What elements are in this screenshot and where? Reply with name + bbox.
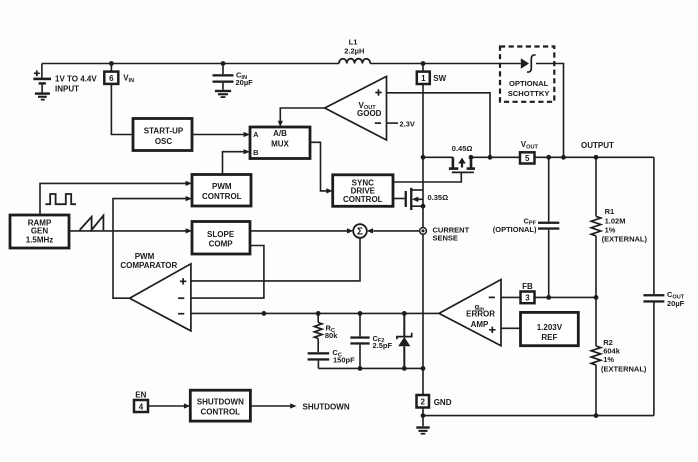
svg-text:2.2µH: 2.2µH: [344, 47, 364, 56]
svg-text:SCHOTTKY: SCHOTTKY: [508, 89, 550, 98]
svg-text:COMPARATOR: COMPARATOR: [120, 261, 177, 270]
svg-text:2.5pF: 2.5pF: [373, 341, 393, 350]
svg-text:80k: 80k: [325, 331, 338, 340]
svg-text:SHUTDOWN: SHUTDOWN: [197, 397, 244, 406]
svg-text:1.203V: 1.203V: [537, 323, 563, 332]
svg-text:GND: GND: [434, 398, 452, 407]
svg-text:2: 2: [420, 398, 425, 407]
svg-text:SENSE: SENSE: [433, 233, 458, 242]
svg-text:B: B: [253, 148, 259, 157]
svg-text:5: 5: [525, 154, 530, 163]
svg-text:FB: FB: [522, 282, 533, 291]
svg-text:3: 3: [525, 294, 530, 303]
svg-text:0.45Ω: 0.45Ω: [452, 144, 473, 153]
svg-text:CONTROL: CONTROL: [343, 195, 383, 204]
svg-text:OSC: OSC: [155, 137, 173, 146]
svg-text:EN: EN: [135, 390, 146, 399]
svg-text:ERROR: ERROR: [466, 309, 495, 318]
svg-text:20µF: 20µF: [236, 78, 254, 87]
svg-text:1%: 1%: [603, 355, 614, 364]
svg-text:OPTIONAL: OPTIONAL: [509, 79, 549, 88]
svg-text:GOOD: GOOD: [357, 109, 382, 118]
svg-text:A/B: A/B: [273, 129, 287, 138]
svg-text:COMP: COMP: [209, 239, 234, 248]
svg-text:(EXTERNAL): (EXTERNAL): [601, 364, 647, 373]
svg-text:SW: SW: [433, 74, 446, 83]
svg-text:6: 6: [109, 74, 114, 83]
svg-text:REF: REF: [541, 333, 557, 342]
svg-text:CONTROL: CONTROL: [201, 407, 241, 416]
svg-text:PWM: PWM: [212, 182, 232, 191]
svg-text:2.3V: 2.3V: [400, 119, 415, 128]
svg-text:1.5MHz: 1.5MHz: [26, 235, 54, 244]
svg-text:(EXTERNAL): (EXTERNAL): [602, 234, 648, 243]
svg-text:20µF: 20µF: [667, 299, 685, 308]
svg-text:PWM: PWM: [135, 252, 155, 261]
svg-text:1: 1: [421, 74, 426, 83]
svg-text:START-UP: START-UP: [144, 127, 184, 136]
svg-text:SHUTDOWN: SHUTDOWN: [303, 403, 350, 412]
svg-text:Σ: Σ: [357, 227, 363, 238]
svg-text:CONTROL: CONTROL: [202, 192, 242, 201]
svg-text:1%: 1%: [605, 225, 616, 234]
svg-text:R1: R1: [605, 207, 615, 216]
svg-text:0.35Ω: 0.35Ω: [428, 193, 449, 202]
svg-text:A: A: [253, 130, 259, 139]
svg-text:4: 4: [139, 403, 144, 412]
svg-text:(OPTIONAL): (OPTIONAL): [493, 225, 537, 234]
svg-text:OUTPUT: OUTPUT: [581, 141, 614, 150]
svg-text:SLOPE: SLOPE: [207, 230, 235, 239]
svg-text:L1: L1: [349, 37, 358, 46]
svg-text:1.02M: 1.02M: [605, 217, 626, 226]
svg-text:150pF: 150pF: [333, 356, 355, 365]
svg-text:AMP: AMP: [471, 320, 489, 329]
svg-text:INPUT: INPUT: [55, 85, 79, 94]
svg-text:MUX: MUX: [271, 139, 289, 148]
svg-text:1V TO 4.4V: 1V TO 4.4V: [55, 74, 97, 83]
